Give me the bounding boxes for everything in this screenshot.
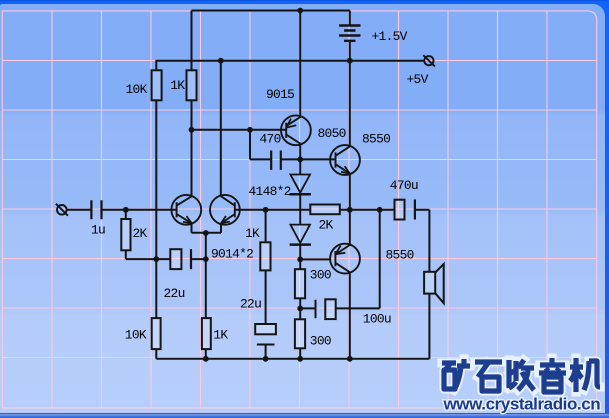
svg-text:9014*2: 9014*2 (211, 246, 253, 261)
svg-text:1u: 1u (91, 223, 105, 238)
svg-text:470u: 470u (390, 178, 418, 193)
svg-text:2K: 2K (319, 217, 334, 232)
svg-text:22u: 22u (240, 297, 261, 312)
svg-text:+5V: +5V (407, 72, 429, 87)
svg-text:1K: 1K (170, 78, 185, 93)
svg-text:10K: 10K (125, 328, 147, 343)
svg-text:2K: 2K (133, 226, 148, 241)
svg-text:4148*2: 4148*2 (249, 184, 291, 199)
svg-text:8550: 8550 (386, 248, 414, 263)
svg-text:22u: 22u (164, 286, 185, 301)
svg-text:9015: 9015 (266, 87, 294, 102)
svg-text:100u: 100u (363, 311, 391, 326)
svg-text:1K: 1K (245, 226, 260, 241)
svg-text:470: 470 (260, 131, 281, 146)
svg-text:8550: 8550 (362, 131, 390, 146)
svg-text:10K: 10K (126, 82, 148, 97)
svg-text:300: 300 (310, 268, 331, 283)
svg-text:1K: 1K (213, 328, 228, 343)
svg-text:8050: 8050 (318, 126, 346, 141)
svg-text:300: 300 (310, 334, 331, 349)
svg-text:www.crystalradio.cn: www.crystalradio.cn (443, 395, 601, 414)
svg-text:+1.5V: +1.5V (372, 29, 408, 44)
